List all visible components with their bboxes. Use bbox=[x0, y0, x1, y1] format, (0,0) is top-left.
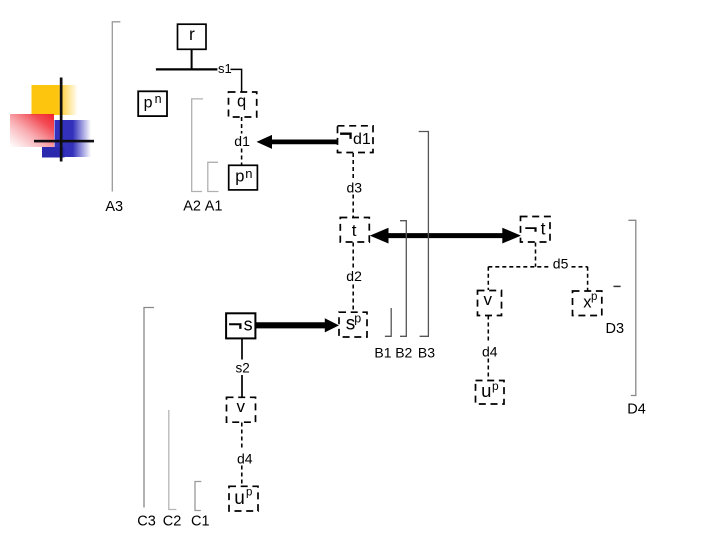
arrow from not-d1 to d1 bbox=[257, 135, 338, 149]
bracket D3 tick bbox=[614, 285, 621, 287]
wire q to d1 dashed bbox=[241, 117, 243, 134]
wire d4 to up right dashed bbox=[487, 359, 489, 381]
box not-t bbox=[521, 217, 551, 243]
svg-text:C3: C3 bbox=[137, 514, 156, 530]
box up left bbox=[229, 486, 258, 511]
bracket B3 bbox=[419, 132, 429, 337]
svg-text:v: v bbox=[484, 290, 493, 309]
bracket A2 bbox=[192, 99, 203, 192]
svg-text:d4: d4 bbox=[482, 344, 498, 360]
svg-text:D4: D4 bbox=[627, 402, 646, 418]
box pn lower bbox=[229, 165, 258, 190]
wire v left to d4 dashed bbox=[241, 423, 243, 451]
svg-text:p: p bbox=[246, 487, 252, 499]
svg-text:d1: d1 bbox=[234, 133, 250, 149]
svg-text:d1: d1 bbox=[353, 131, 371, 148]
svg-text:d3: d3 bbox=[347, 179, 363, 195]
wire not-s to s2 solid bbox=[241, 339, 243, 360]
svg-text:v: v bbox=[237, 397, 246, 416]
wire d1 to pn dashed bbox=[241, 149, 243, 165]
svg-text:d2: d2 bbox=[346, 268, 362, 284]
logo cross horizontal bar bbox=[34, 140, 94, 143]
svg-text:p: p bbox=[591, 291, 597, 303]
wire r stem bbox=[191, 49, 193, 69]
wire d4 to up left dashed bbox=[241, 466, 243, 487]
svg-text:A1: A1 bbox=[205, 199, 223, 215]
bracket D4 bbox=[628, 220, 635, 395]
wire elbow down to v right dashed bbox=[487, 267, 489, 290]
svg-text:d4: d4 bbox=[237, 450, 253, 466]
svg-text:C2: C2 bbox=[163, 514, 182, 530]
box v right bbox=[478, 290, 502, 316]
box q bbox=[229, 92, 257, 117]
bracket A3 bbox=[112, 22, 120, 192]
svg-text:C1: C1 bbox=[191, 514, 210, 530]
wire s1 elbow to q bbox=[231, 69, 242, 91]
svg-text:r: r bbox=[189, 24, 195, 44]
svg-text:d5: d5 bbox=[553, 256, 569, 272]
svg-text:u: u bbox=[234, 488, 245, 509]
logo red square bbox=[10, 114, 54, 147]
svg-text:D3: D3 bbox=[606, 321, 625, 337]
bracket B1 bbox=[385, 308, 391, 336]
svg-text:u: u bbox=[481, 380, 491, 401]
svg-text:A2: A2 bbox=[183, 199, 201, 215]
svg-text:p: p bbox=[354, 312, 361, 326]
box pn left bbox=[138, 91, 167, 116]
box not-s bbox=[226, 313, 255, 338]
svg-text:t: t bbox=[352, 221, 357, 240]
box t bbox=[340, 218, 369, 243]
svg-text:n: n bbox=[155, 92, 162, 106]
logo navy square bbox=[42, 147, 65, 158]
box r bbox=[178, 24, 207, 50]
logo blue square bbox=[55, 120, 92, 157]
box sp bbox=[339, 312, 367, 338]
wire d3 to t dashed bbox=[352, 195, 354, 218]
box not-d1 bbox=[338, 126, 374, 153]
box v left bbox=[227, 397, 256, 422]
svg-text:B2: B2 bbox=[395, 344, 412, 360]
wire not-d1 to d3 dashed bbox=[352, 153, 354, 180]
svg-text:s2: s2 bbox=[236, 361, 250, 376]
bracket A1 bbox=[208, 162, 219, 191]
wire d2 to sp dashed bbox=[352, 285, 354, 312]
svg-text:n: n bbox=[245, 166, 252, 181]
wire t to d2 dashed bbox=[352, 243, 354, 270]
svg-text:t: t bbox=[541, 219, 546, 239]
wire s1 horizontal bar bbox=[156, 68, 218, 70]
logo cross vertical bar bbox=[60, 78, 63, 162]
svg-text:B3: B3 bbox=[418, 344, 435, 360]
svg-text:p: p bbox=[235, 167, 244, 185]
wire s2 to v solid bbox=[241, 375, 243, 397]
wire d5 horizontal dashed left part bbox=[488, 266, 550, 268]
wire elbow down to xp dashed bbox=[587, 267, 589, 291]
wire not-t stem dashed bbox=[535, 243, 537, 267]
double arrow between t and not-t bbox=[370, 228, 521, 244]
bracket C2 bbox=[169, 410, 177, 510]
bracket C3 bbox=[144, 308, 154, 508]
svg-text:s: s bbox=[244, 314, 253, 334]
svg-text:A3: A3 bbox=[105, 199, 123, 215]
logo yellow square bbox=[32, 85, 79, 115]
svg-text:q: q bbox=[237, 93, 246, 111]
box up right bbox=[476, 379, 505, 404]
wire v right to d4 dashed bbox=[487, 316, 489, 344]
bracket C1 bbox=[195, 482, 201, 511]
svg-text:p: p bbox=[492, 379, 499, 393]
svg-text:B1: B1 bbox=[374, 344, 391, 360]
bracket B2 bbox=[400, 221, 406, 337]
svg-text:p: p bbox=[144, 94, 153, 111]
wire d5 horizontal dashed right part bbox=[572, 266, 588, 268]
arrow from not-s to sp bbox=[256, 318, 339, 332]
svg-text:s1: s1 bbox=[218, 61, 232, 76]
box xp bbox=[573, 291, 602, 316]
